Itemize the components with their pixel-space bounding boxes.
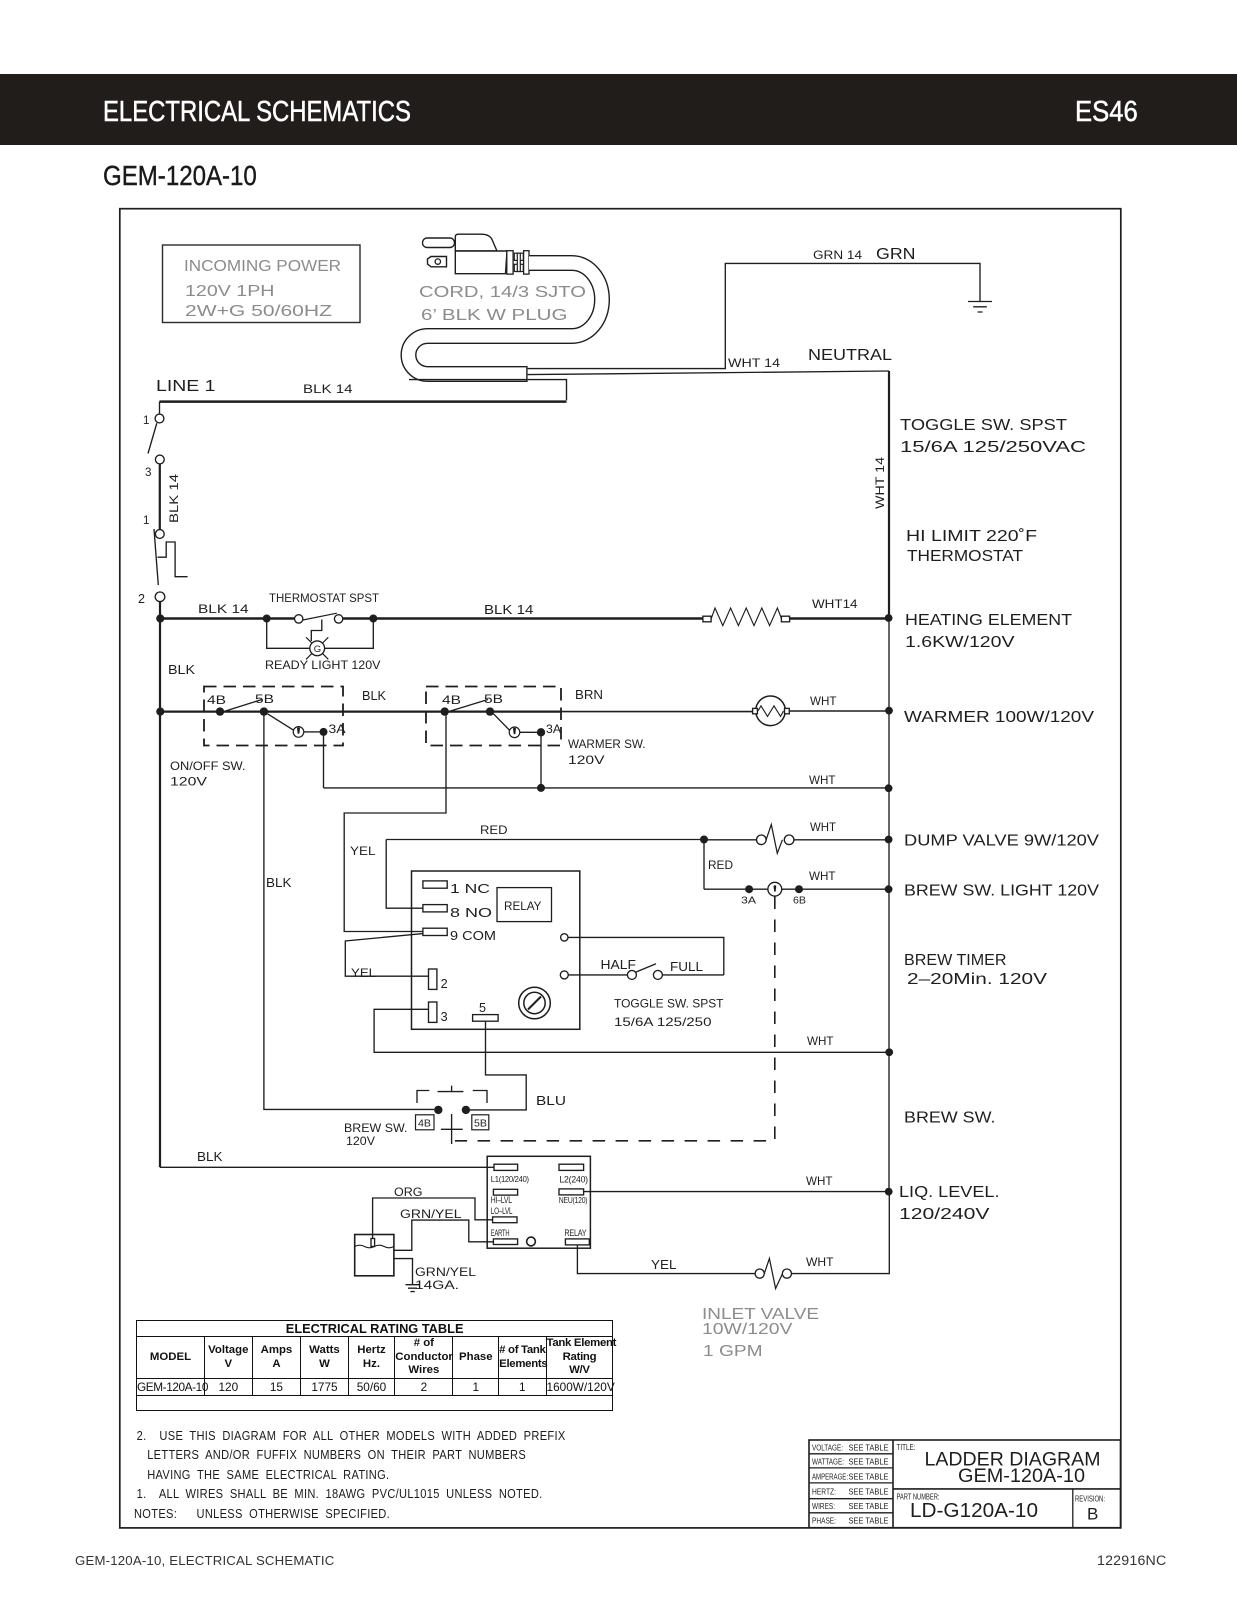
wire YEL board relay to inlet valve <box>577 1245 755 1274</box>
svg-text:WATTAGE:: WATTAGE: <box>812 1458 844 1467</box>
wire GRN/YEL tank to EARTH <box>394 1208 494 1250</box>
svg-text:HERTZ:: HERTZ: <box>812 1488 836 1497</box>
chassis ground symbol <box>406 1285 420 1292</box>
svg-text:6B: 6B <box>793 896 806 907</box>
svg-text:2W+G 50/60HZ: 2W+G 50/60HZ <box>185 303 332 320</box>
svg-text:INCOMING POWER: INCOMING POWER <box>184 258 341 275</box>
title block title <box>897 1443 1101 1487</box>
svg-text:4B: 4B <box>207 694 226 707</box>
board terminal HI-LVL <box>491 1189 518 1205</box>
svg-text:WHT: WHT <box>806 1256 834 1269</box>
relay terminal 8 NO <box>423 905 492 920</box>
svg-text:HALF: HALF <box>601 958 637 972</box>
cord jacket split (BLK band) <box>409 380 567 401</box>
svg-text:HI LIMIT 220˚F: HI LIMIT 220˚F <box>906 528 1037 545</box>
wire BLU timer 5 to brew switch <box>470 1021 566 1110</box>
timer cam contact upper <box>561 934 724 975</box>
warmer element E2 <box>753 696 790 726</box>
title block see-table rows <box>812 1444 889 1526</box>
terminal 2 of hi-limit <box>138 592 165 606</box>
svg-text:WIRES:: WIRES: <box>812 1502 835 1511</box>
title block revision <box>1075 1495 1105 1524</box>
svg-text:RED: RED <box>708 859 733 872</box>
svg-text:CORD, 14/3 SJTO: CORD, 14/3 SJTO <box>419 284 586 301</box>
svg-text:1 GPM: 1 GPM <box>703 1343 763 1360</box>
brew switch terminal 4B <box>434 1106 442 1114</box>
svg-text:120V: 120V <box>346 1135 375 1148</box>
board terminal L1 <box>491 1164 529 1184</box>
svg-text:REVISION:: REVISION: <box>1075 1495 1105 1504</box>
svg-text:LIQ. LEVEL.: LIQ. LEVEL. <box>899 1184 1000 1201</box>
svg-text:YEL: YEL <box>350 845 376 858</box>
svg-text:BLK 14: BLK 14 <box>484 603 533 617</box>
node junction ready-light left <box>263 615 271 623</box>
brew switch label <box>344 1122 408 1148</box>
terminal 3 of toggle switch <box>145 455 164 479</box>
svg-text:EARTH: EARTH <box>491 1228 510 1238</box>
brew switch light lamp <box>768 882 782 896</box>
warmer switch blade <box>442 700 488 714</box>
svg-text:B: B <box>1087 1505 1098 1524</box>
svg-text:SEE TABLE: SEE TABLE <box>849 1488 889 1497</box>
svg-text:YEL: YEL <box>351 967 377 980</box>
brew timer label <box>904 952 1048 988</box>
warmer switch terminal 3A <box>537 723 561 737</box>
warmer switch lamp contact <box>494 714 537 738</box>
svg-text:6’ BLK W PLUG: 6’ BLK W PLUG <box>421 307 568 324</box>
svg-text:SEE TABLE: SEE TABLE <box>849 1516 889 1525</box>
svg-text:RED: RED <box>480 824 508 837</box>
ready light lamp G <box>267 619 374 660</box>
power cord cable <box>409 263 603 374</box>
wire RED down to brew light row <box>704 840 733 890</box>
electrical rating table <box>136 1320 612 1411</box>
wire WHT NEU to rail <box>584 1175 889 1192</box>
svg-text:2: 2 <box>138 592 145 606</box>
board terminal L2 <box>559 1164 588 1184</box>
node junction rail / WHT row <box>885 784 893 792</box>
on/off switch terminal 5B <box>255 693 274 716</box>
svg-text:15/6A 125/250VAC: 15/6A 125/250VAC <box>900 439 1086 456</box>
timer dial <box>519 987 551 1019</box>
timer terminal 2 <box>429 969 448 991</box>
svg-text:NEU(120): NEU(120) <box>559 1195 588 1205</box>
wire brew light row <box>704 888 889 890</box>
on/off switch label <box>170 760 246 789</box>
brew switch terminal 5B <box>462 1106 470 1114</box>
svg-text:1 NC: 1 NC <box>450 882 490 896</box>
svg-text:BLK 14: BLK 14 <box>198 603 249 616</box>
wire WHT14 heating to rail <box>790 598 889 619</box>
svg-text:5B: 5B <box>255 693 274 706</box>
svg-text:ON/OFF SW.: ON/OFF SW. <box>170 760 246 773</box>
relay terminal 9 COM <box>423 928 496 943</box>
svg-text:GEM-120A-10: GEM-120A-10 <box>958 1465 1085 1487</box>
svg-text:SEE TABLE: SEE TABLE <box>849 1444 889 1453</box>
svg-text:WHT 14: WHT 14 <box>728 357 781 370</box>
svg-text:THERMOSTAT SPST: THERMOSTAT SPST <box>269 592 379 605</box>
svg-text:WARMER 100W/120V: WARMER 100W/120V <box>904 709 1095 726</box>
power cord plug P1 <box>423 234 530 274</box>
svg-text:BLK: BLK <box>168 663 196 677</box>
svg-text:TOGGLE SW. SPST: TOGGLE SW. SPST <box>614 998 724 1011</box>
neutral bus right rail (thick upper part) <box>874 371 889 619</box>
heating element R1 <box>703 608 790 626</box>
wire GRN conductor <box>528 246 980 369</box>
svg-text:3A: 3A <box>546 723 561 736</box>
brew light terminal 6B <box>793 885 806 906</box>
svg-text:120V 1PH: 120V 1PH <box>185 283 275 300</box>
svg-text:5B: 5B <box>474 1119 487 1130</box>
inlet valve label <box>702 1306 819 1360</box>
water tank with probe <box>355 1235 394 1276</box>
wire WHT inlet valve to rail <box>792 1192 890 1274</box>
wire RED to relay NO <box>386 840 423 909</box>
timer terminal 5 <box>473 1001 499 1021</box>
node junction rail / dump valve <box>885 836 893 844</box>
node junction rail / timer WHT <box>885 1048 893 1056</box>
svg-text:WHT: WHT <box>809 774 836 787</box>
svg-text:1: 1 <box>143 414 149 427</box>
title block part number <box>897 1493 1039 1523</box>
brew switch terminal label 5B <box>472 1115 489 1130</box>
svg-text:READY LIGHT 120V: READY LIGHT 120V <box>265 659 381 672</box>
svg-text:3A: 3A <box>329 723 346 736</box>
wire BLK 14 vertical <box>160 464 181 530</box>
wire to heating row <box>159 602 161 619</box>
GRN/YEL 14GA label <box>415 1266 477 1292</box>
node junction 3A wires <box>537 784 545 792</box>
svg-text:WHT: WHT <box>810 821 836 834</box>
svg-text:120V: 120V <box>568 754 605 767</box>
ground symbol (mains earth) <box>968 302 992 313</box>
node junction rail / brew light <box>885 885 893 893</box>
svg-text:3: 3 <box>145 466 151 479</box>
wire BLK 14 to heating element <box>343 603 703 619</box>
svg-text:5: 5 <box>479 1001 486 1015</box>
neutral bus right rail (lower part) <box>888 619 890 1192</box>
svg-text:10W/120V: 10W/120V <box>702 1321 793 1338</box>
svg-text:2–20Min. 120V: 2–20Min. 120V <box>907 971 1048 988</box>
node junction rail / warmer <box>885 707 893 715</box>
svg-text:120V: 120V <box>170 776 207 789</box>
terminal 1 of toggle switch <box>143 402 164 427</box>
wire YEL relay COM to timer 2 <box>345 934 428 980</box>
svg-text:BRN: BRN <box>575 688 603 702</box>
node junction left rail / warmer row <box>156 708 164 716</box>
board terminal LO-LVL <box>491 1206 517 1223</box>
brew light terminal 3A <box>741 885 756 906</box>
svg-text:SEE TABLE: SEE TABLE <box>849 1473 889 1482</box>
svg-text:SEE TABLE: SEE TABLE <box>849 1458 889 1467</box>
inlet valve coil L2 <box>755 1259 791 1289</box>
svg-text:GRN/YEL: GRN/YEL <box>415 1266 477 1279</box>
wire warmer row BLK <box>160 688 753 712</box>
title block frame <box>809 1440 1121 1528</box>
svg-text:1.6KW/120V: 1.6KW/120V <box>905 634 1015 651</box>
warmer switch terminal 5B <box>484 693 503 716</box>
svg-text:WHT: WHT <box>806 1175 833 1188</box>
node junction ready-light right <box>369 615 377 623</box>
svg-text:RELAY: RELAY <box>504 900 542 913</box>
timer cam contact lower <box>560 971 627 979</box>
liquid level label <box>899 1184 1000 1223</box>
svg-text:BLU: BLU <box>536 1094 566 1108</box>
brew switch pushbutton <box>417 1086 487 1144</box>
svg-text:BREW SW. LIGHT 120V: BREW SW. LIGHT 120V <box>904 883 1100 900</box>
svg-text:AMPERAGE:: AMPERAGE: <box>812 1473 848 1482</box>
cord label <box>419 284 586 324</box>
node junction rail / heating <box>885 614 893 622</box>
svg-text:120/240V: 120/240V <box>899 1206 990 1223</box>
timer terminal 3 <box>429 1002 448 1024</box>
wire BLK 5B drop <box>264 712 434 1110</box>
svg-text:3A: 3A <box>741 896 756 907</box>
svg-text:L2(240): L2(240) <box>559 1174 588 1184</box>
wire WHT conductor to neutral bus <box>528 347 893 375</box>
thermostat SPST contacts <box>295 613 343 623</box>
svg-text:WHT 14: WHT 14 <box>874 456 887 509</box>
svg-text:SEE TABLE: SEE TABLE <box>849 1502 889 1511</box>
on/off switch blade <box>218 700 263 714</box>
svg-text:DUMP VALVE 9W/120V: DUMP VALVE 9W/120V <box>904 833 1100 850</box>
svg-text:BLK: BLK <box>362 689 387 703</box>
svg-text:L1(120/240): L1(120/240) <box>491 1174 529 1184</box>
dump valve coil L1 <box>704 825 794 854</box>
wire dump valve to rail WHT <box>794 821 889 840</box>
notes text <box>134 1427 566 1524</box>
wire RED dump valve row <box>386 824 704 840</box>
on/off switch terminal 3A <box>320 723 346 736</box>
svg-text:BREW SW.: BREW SW. <box>904 1110 996 1127</box>
svg-text:BLK 14: BLK 14 <box>303 383 353 396</box>
wire timer 3 to WHT row <box>374 1009 889 1052</box>
svg-text:ORG: ORG <box>394 1186 423 1199</box>
board terminal EARTH <box>491 1228 518 1245</box>
warmer switch label <box>568 738 646 767</box>
hi-limit blade <box>154 529 158 585</box>
incoming power info box <box>163 245 361 323</box>
warmer switch dashed enclosure <box>426 687 561 746</box>
svg-text:NEUTRAL: NEUTRAL <box>808 347 892 364</box>
svg-text:2: 2 <box>441 977 448 991</box>
hi limit thermostat label <box>906 528 1037 565</box>
svg-text:WHT: WHT <box>809 870 836 883</box>
svg-text:GRN/YEL: GRN/YEL <box>400 1208 462 1221</box>
svg-text:LO–LVL: LO–LVL <box>491 1206 513 1216</box>
footer <box>75 1553 334 1568</box>
svg-text:THERMOSTAT: THERMOSTAT <box>907 548 1024 565</box>
svg-text:BREW TIMER: BREW TIMER <box>904 952 1007 969</box>
svg-text:3: 3 <box>441 1010 448 1024</box>
thermostat heater step <box>311 620 322 642</box>
board terminal RELAY <box>564 1228 589 1245</box>
svg-text:15/6A 125/250: 15/6A 125/250 <box>614 1016 712 1029</box>
left rail BLK bus <box>159 619 161 1168</box>
svg-text:LD-G120A-10: LD-G120A-10 <box>910 1499 1038 1522</box>
svg-text:WARMER SW.: WARMER SW. <box>568 738 646 751</box>
svg-text:4B: 4B <box>442 694 461 707</box>
svg-text:BLK 14: BLK 14 <box>168 473 181 523</box>
svg-text:GRN: GRN <box>876 246 916 263</box>
svg-text:8 NO: 8 NO <box>450 906 492 920</box>
heating element label <box>905 612 1073 651</box>
svg-text:LINE 1: LINE 1 <box>156 378 216 395</box>
svg-text:BLK: BLK <box>266 876 292 890</box>
on/off switch dashed enclosure <box>204 687 343 746</box>
wire YEL warmer 4B to relay COM <box>344 712 446 932</box>
svg-text:PHASE:: PHASE: <box>812 1516 836 1525</box>
board terminal NEU <box>559 1189 588 1205</box>
svg-text:14GA.: 14GA. <box>415 1279 459 1292</box>
svg-text:9 COM: 9 COM <box>450 929 496 943</box>
svg-text:HI–LVL: HI–LVL <box>491 1195 512 1205</box>
svg-text:TOGGLE SW. SPST: TOGGLE SW. SPST <box>900 417 1068 434</box>
page title <box>103 160 257 192</box>
svg-text:GRN 14: GRN 14 <box>813 249 863 262</box>
on/off switch lamp contact <box>268 714 320 737</box>
svg-text:RELAY: RELAY <box>564 1228 586 1238</box>
svg-text:HEATING ELEMENT: HEATING ELEMENT <box>905 612 1073 629</box>
svg-text:1: 1 <box>143 514 149 527</box>
svg-text:VOLTAGE:: VOLTAGE: <box>812 1444 843 1453</box>
svg-text:TITLE:: TITLE: <box>897 1443 916 1452</box>
svg-text:YEL: YEL <box>651 1258 677 1272</box>
mechanical link dashed brew light to brew switch <box>455 897 775 1141</box>
wire tank to chassis ground <box>394 1259 413 1285</box>
wire 3A down to WHT row <box>323 732 325 788</box>
svg-text:WHT14: WHT14 <box>812 598 858 611</box>
brew timer relay box U1 <box>412 871 580 1029</box>
node junction RED branch <box>700 836 708 844</box>
board mounting hole <box>527 1237 536 1246</box>
terminal 1 of hi-limit <box>143 514 164 538</box>
relay terminal 1 NC <box>423 881 490 896</box>
svg-text:FULL: FULL <box>670 960 703 974</box>
svg-text:G: G <box>314 644 321 655</box>
svg-text:WHT: WHT <box>807 1035 834 1048</box>
diagram border frame <box>120 209 1121 1528</box>
brew switch terminal label 4B <box>416 1115 435 1130</box>
toggle switch SW1 label <box>900 417 1086 456</box>
half/full toggle switch <box>601 958 724 979</box>
node junction left rail / heating row <box>156 614 164 622</box>
node junction rail / NEU <box>885 1188 893 1196</box>
half/full toggle label <box>614 998 724 1030</box>
wire warmer to rail WHT <box>789 695 889 711</box>
wire BLK left rail to liquid level board <box>160 1150 494 1167</box>
relay coil box <box>497 888 552 922</box>
wire WHT return row <box>324 774 889 788</box>
hi-limit thermal element <box>158 542 188 577</box>
svg-text:BREW SW.: BREW SW. <box>344 1122 408 1135</box>
switch blade pole1 <box>148 423 157 453</box>
on/off switch terminal 4B <box>207 694 226 716</box>
wire BLK 14 heating row <box>160 603 295 619</box>
liquid level board A1 <box>487 1156 590 1248</box>
header black bar <box>0 74 1237 145</box>
svg-text:BLK: BLK <box>197 1150 223 1164</box>
svg-text:WHT: WHT <box>810 695 837 708</box>
wire warmer 3A down <box>540 732 542 788</box>
wire LINE1 BLK 14 <box>156 378 567 402</box>
wire ORG probe to LO-LVL <box>373 1186 493 1239</box>
svg-text:4B: 4B <box>418 1119 431 1130</box>
warmer switch terminal 4B <box>441 694 462 716</box>
